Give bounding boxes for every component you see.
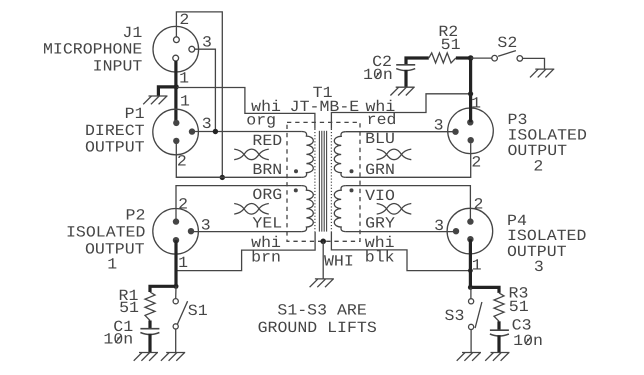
wire S1 to ground	[175, 329, 177, 353]
J1 pin 3 contact	[189, 46, 195, 52]
P2 pin 1	[173, 237, 179, 243]
switch S3 bottom contact	[469, 324, 474, 329]
J1 pin 2 contact	[174, 37, 180, 43]
wire whi/blk shield lead to P4 pin1	[331, 232, 470, 271]
svg-text:brn: brn	[251, 248, 281, 266]
svg-text:1: 1	[179, 69, 189, 87]
svg-text:INPUT: INPUT	[93, 57, 143, 75]
svg-text:S3: S3	[445, 307, 465, 325]
wire S2 to ground	[523, 58, 545, 69]
junction S1 node	[174, 284, 179, 289]
svg-text:BLU: BLU	[365, 130, 395, 148]
P1 pin 2	[173, 138, 179, 144]
P1 pin 1	[173, 120, 179, 126]
wire P4 pin1 down (thick)	[469, 239, 472, 287]
resistor R2 zigzag	[429, 53, 456, 63]
P1 pin 3	[189, 128, 195, 134]
connector P4 isolated output 3 XLR	[447, 208, 493, 254]
ground chassis at J1	[143, 96, 167, 104]
junction P4 pin1 / blk	[468, 268, 473, 273]
junction S3 node	[468, 285, 473, 290]
wire P2 node to R1 (thick)	[150, 286, 176, 292]
svg-text:3: 3	[202, 115, 212, 133]
wire J1 pin2 to BRN junction	[176, 12, 222, 178]
wire R2 to node (thick)	[456, 56, 471, 59]
resistor R1 zigzag	[145, 292, 155, 321]
svg-text:1: 1	[178, 254, 188, 272]
ground chassis WHI	[310, 279, 334, 287]
wire P4 node to R3 (thick)	[470, 287, 499, 293]
wire C2 to R2 (thick)	[406, 58, 429, 65]
junction J1 ground node	[174, 84, 179, 89]
P4 pin 3	[453, 228, 459, 234]
svg-text:BRN: BRN	[252, 161, 282, 179]
svg-text:ORG: ORG	[252, 186, 282, 204]
slashed zero C1 10n	[116, 335, 122, 343]
wire R3 to C3 (thick)	[497, 321, 500, 330]
switch S3 lever	[475, 302, 482, 328]
wire ORG: P2 pin2 to winding	[176, 186, 302, 222]
svg-text:GROUND LIFTS: GROUND LIFTS	[258, 319, 377, 337]
svg-text:blk: blk	[365, 248, 395, 266]
wire P3 pin1 to R2/S2 node (thick)	[469, 58, 472, 122]
slashed zero C3 10n	[525, 337, 531, 345]
svg-text:J1: J1	[122, 24, 142, 42]
svg-text:2: 2	[178, 196, 188, 214]
switch S2 left contact	[492, 55, 498, 61]
svg-text:ISOLATED: ISOLATED	[66, 224, 145, 242]
svg-text:2: 2	[474, 196, 484, 214]
switch S1 bottom contact	[173, 324, 178, 329]
ground chassis S3	[457, 353, 481, 361]
svg-text:3: 3	[534, 258, 544, 276]
junction dot WHI center tap	[320, 239, 326, 245]
connector P3 isolated output 2 XLR	[448, 108, 494, 154]
svg-text:RED: RED	[252, 132, 282, 150]
twisted pair symbol ORG/YEL	[234, 204, 269, 215]
wire node to S2	[471, 57, 492, 59]
twisted pair symbol VIO/GRY	[377, 204, 412, 215]
svg-text:P1: P1	[125, 105, 145, 123]
ground chassis C2	[390, 87, 414, 95]
P3 pin 1	[467, 119, 473, 125]
capacitor C1	[140, 328, 159, 330]
wire whi/brn shield lead to P2 pin1	[176, 232, 315, 271]
ground chassis C1	[134, 353, 158, 361]
svg-text:1: 1	[471, 94, 481, 112]
svg-text:P2: P2	[126, 206, 146, 224]
wire ground branch at J1 (thick)	[158, 87, 176, 96]
P2 pin 3	[188, 228, 194, 234]
phase dot ORG winding	[294, 188, 298, 192]
twisted pair symbol RED/BRN	[234, 149, 269, 160]
svg-text:3: 3	[434, 116, 444, 134]
P4 pin 1	[467, 236, 473, 242]
phase dot GRN winding	[350, 169, 354, 173]
slashed zero C2 10n	[375, 71, 381, 79]
wire BLU: winding to P3 pin3	[346, 131, 456, 133]
wire S3 to ground	[470, 330, 472, 353]
svg-text:2: 2	[179, 11, 189, 29]
faraday shield left (dotted)	[314, 129, 316, 232]
wire J1 pin1 to P1 pin1 (thick)	[174, 61, 177, 123]
wire S1 from node	[175, 286, 177, 298]
switch S1 lever	[177, 301, 187, 324]
P2 pin 2	[173, 218, 179, 224]
svg-text:VIO: VIO	[365, 187, 395, 205]
wire C3 to ground (thick)	[497, 335, 500, 352]
wire P2 pin1 down (thick)	[174, 240, 177, 286]
P4 pin 2	[467, 218, 473, 224]
wire R1 to C1 (thick)	[148, 321, 151, 329]
svg-text:GRY: GRY	[365, 215, 395, 233]
phase dot BRN winding	[294, 169, 298, 173]
wire S3 from node	[470, 287, 472, 298]
svg-text:1: 1	[180, 92, 190, 110]
svg-text:2: 2	[533, 157, 543, 175]
switch S1 top contact	[173, 299, 178, 304]
wire C1 to ground (thick)	[148, 334, 151, 353]
shield box dashed	[287, 122, 360, 241]
ground chassis S1	[161, 353, 185, 361]
wire P1 pin2 to BRN wire	[176, 144, 222, 177]
connector P2 isolated output 1 XLR	[153, 209, 199, 255]
svg-text:YEL: YEL	[252, 215, 282, 233]
wire C2 to ground (thick)	[404, 70, 407, 87]
wire WHI to ground	[322, 241, 324, 279]
svg-text:S2: S2	[497, 34, 517, 52]
ground chassis S2	[530, 69, 554, 77]
wire YEL: P2 pin3 to winding	[191, 231, 302, 233]
transformer T1 winding ORG/YEL	[302, 186, 314, 232]
svg-text:WHI: WHI	[324, 253, 354, 271]
capacitor C2	[396, 64, 415, 66]
twisted pair symbol BLU/GRN	[377, 149, 412, 160]
svg-text:51: 51	[441, 36, 461, 54]
svg-text:51: 51	[509, 298, 529, 316]
svg-text:S1: S1	[188, 302, 208, 320]
phase dot VIO winding	[350, 188, 354, 192]
wire whi/org shield lead to J1 ground	[177, 88, 315, 129]
P3 pin 3	[452, 129, 458, 135]
resistor R3 zigzag	[494, 293, 504, 321]
J1 pin 1 contact	[173, 55, 179, 61]
svg-text:3: 3	[434, 217, 444, 235]
junction R2/S2/P3 node	[468, 55, 474, 61]
wire BRN: winding to P1 pin2 wire	[176, 176, 301, 178]
svg-text:1: 1	[107, 256, 117, 274]
junction dot BRN / J1 pin2	[220, 175, 225, 180]
svg-text:OUTPUT: OUTPUT	[85, 139, 145, 157]
svg-text:GRN: GRN	[365, 161, 395, 179]
wire VIO: winding to P4 pin2	[346, 186, 471, 222]
P3 pin 2	[468, 137, 474, 143]
switch S3 top contact	[469, 299, 474, 304]
switch S2 right contact	[517, 56, 523, 62]
svg-text:red: red	[367, 111, 397, 129]
transformer T1 winding VIO/GRY	[334, 186, 346, 232]
svg-text:2: 2	[471, 153, 481, 171]
wire whi/red shield lead to P3 ground node	[331, 94, 470, 129]
ground chassis C3	[485, 353, 509, 361]
switch S2 lever	[498, 51, 516, 57]
wire J1 pin3 to RED junction	[195, 49, 216, 131]
transformer T1 primary winding RED/BRN	[302, 132, 314, 178]
faraday shield right (dotted)	[330, 129, 332, 232]
svg-text:1: 1	[472, 256, 482, 274]
junction dot RED / J1 pin3	[213, 129, 218, 134]
svg-text:51: 51	[119, 299, 139, 317]
connector P1 direct output XLR	[153, 109, 199, 155]
junction whi/red on P3 wire	[468, 91, 473, 96]
svg-text:MICROPHONE: MICROPHONE	[43, 41, 142, 59]
wire RED: P1 pin3 to primary winding, with junction	[192, 131, 302, 133]
wire GRN: winding to P3 pin2	[346, 143, 471, 177]
transformer T1 winding BLU/GRN	[334, 132, 345, 178]
transformer core laminations	[319, 131, 326, 232]
svg-text:S1-S3 ARE: S1-S3 ARE	[277, 301, 366, 319]
wire GRY: winding to P4 pin3	[346, 231, 456, 233]
capacitor C3	[490, 329, 509, 331]
svg-text:2: 2	[177, 153, 187, 171]
connector J1 microphone input XLR	[153, 26, 199, 72]
svg-text:DIRECT: DIRECT	[85, 122, 145, 140]
